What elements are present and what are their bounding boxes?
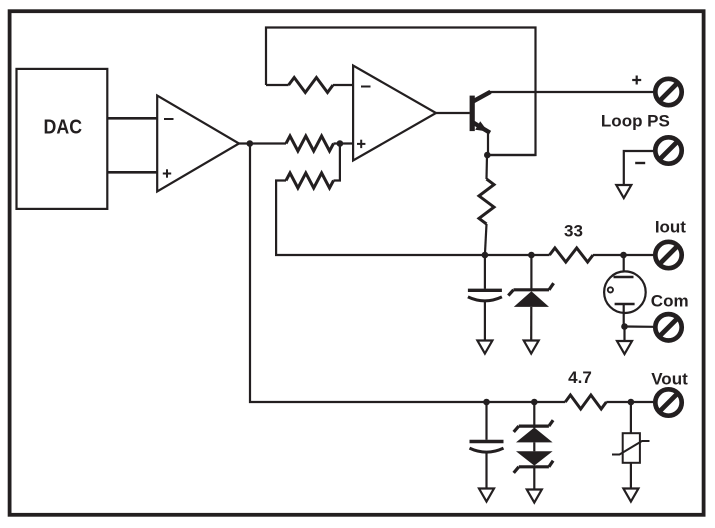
terminal Loop PS + <box>655 79 681 105</box>
label Com <box>651 291 689 310</box>
svg-text:DAC: DAC <box>44 115 83 138</box>
node I: TVS tap on Vout line <box>531 399 538 406</box>
resistor R1 <box>289 78 333 93</box>
svg-text:33: 33 <box>564 222 583 241</box>
meter M1 (loop load) <box>604 255 646 327</box>
label Iout <box>655 217 686 236</box>
wire U2 output to Q1 base <box>436 112 470 114</box>
op-amp U1 <box>157 96 239 192</box>
svg-text:Vout: Vout <box>651 370 688 389</box>
node F: meter tap on Iout line <box>620 252 627 259</box>
ground G1 <box>616 185 631 198</box>
wire R1 left stub <box>266 84 289 86</box>
wire R6 to Vout terminal <box>606 401 653 403</box>
label + (Loop PS positive) <box>632 76 641 85</box>
svg-text:4.7: 4.7 <box>568 368 592 387</box>
resistor R6 (4.7) <box>565 395 606 409</box>
wire node C to feedback corner <box>487 154 536 156</box>
terminal Loop PS - <box>655 137 681 163</box>
resistor R5 (33) <box>550 248 594 262</box>
transistor Q1 <box>470 92 491 133</box>
node G: Com junction <box>621 323 628 330</box>
wire node A down to Vout line <box>250 144 565 403</box>
wire R3 left end down to Iout sense line <box>276 181 549 256</box>
terminal Vout <box>655 389 681 415</box>
wire Com junction to Com terminal <box>625 325 654 327</box>
wire R2 to U2 non-inverting input <box>334 142 354 144</box>
resistor R4 <box>479 155 494 255</box>
label 4.7 <box>568 368 592 387</box>
resistor R2 <box>286 136 334 151</box>
terminal Com <box>655 314 681 340</box>
label 33 <box>564 222 583 241</box>
wire R5 to Iout terminal <box>593 254 653 256</box>
wire R1 to U2 inverting input <box>333 84 353 86</box>
varistor RV1 <box>612 402 650 489</box>
svg-text:Iout: Iout <box>655 217 686 236</box>
wire Q1 collector to Loop PS + terminal <box>490 91 654 93</box>
node D: R4 bottom on Iout line <box>482 252 489 259</box>
ground G2 <box>477 341 492 354</box>
node E: zener D1 on Iout line <box>528 252 535 259</box>
node C: emitter junction <box>484 152 491 159</box>
terminal Iout <box>655 242 681 268</box>
wire node B down to resistor R3 <box>334 144 340 181</box>
wire DAC to op-amp U1 inverting input <box>107 117 157 120</box>
node A: U1 output junction <box>247 140 254 147</box>
wire DAC to op-amp U1 non-inverting input <box>107 171 157 174</box>
ground G4 <box>617 341 632 354</box>
ground G7 <box>623 489 638 502</box>
resistor R3 <box>286 173 334 188</box>
node B: U2 non-inverting input junction <box>337 140 344 147</box>
label Vout <box>651 370 688 389</box>
label - (Loop PS negative) <box>635 162 645 164</box>
capacitor C2 <box>470 402 504 489</box>
op-amp U2 <box>353 66 436 161</box>
svg-text:Loop PS: Loop PS <box>601 111 670 130</box>
wire Com junction to ground <box>623 327 625 342</box>
wire feedback top loop <box>266 28 536 156</box>
svg-text:Com: Com <box>651 291 689 310</box>
ground G5 <box>479 489 494 502</box>
capacitor C1 <box>468 255 502 341</box>
wire Q1 emitter down to node C <box>487 133 489 155</box>
zener D1 <box>508 255 553 341</box>
label Loop PS <box>601 111 670 130</box>
wire Loop PS - terminal to ground <box>624 151 654 185</box>
ground G3 <box>524 341 539 354</box>
wire U1 output to resistor R2 <box>239 142 286 144</box>
ground G6 <box>527 490 542 503</box>
node J: varistor tap <box>628 399 635 406</box>
node H: C2 tap on Vout line <box>483 399 490 406</box>
DAC block U3 <box>17 69 108 209</box>
TVS D2 (back-to-back zeners) <box>514 402 553 490</box>
